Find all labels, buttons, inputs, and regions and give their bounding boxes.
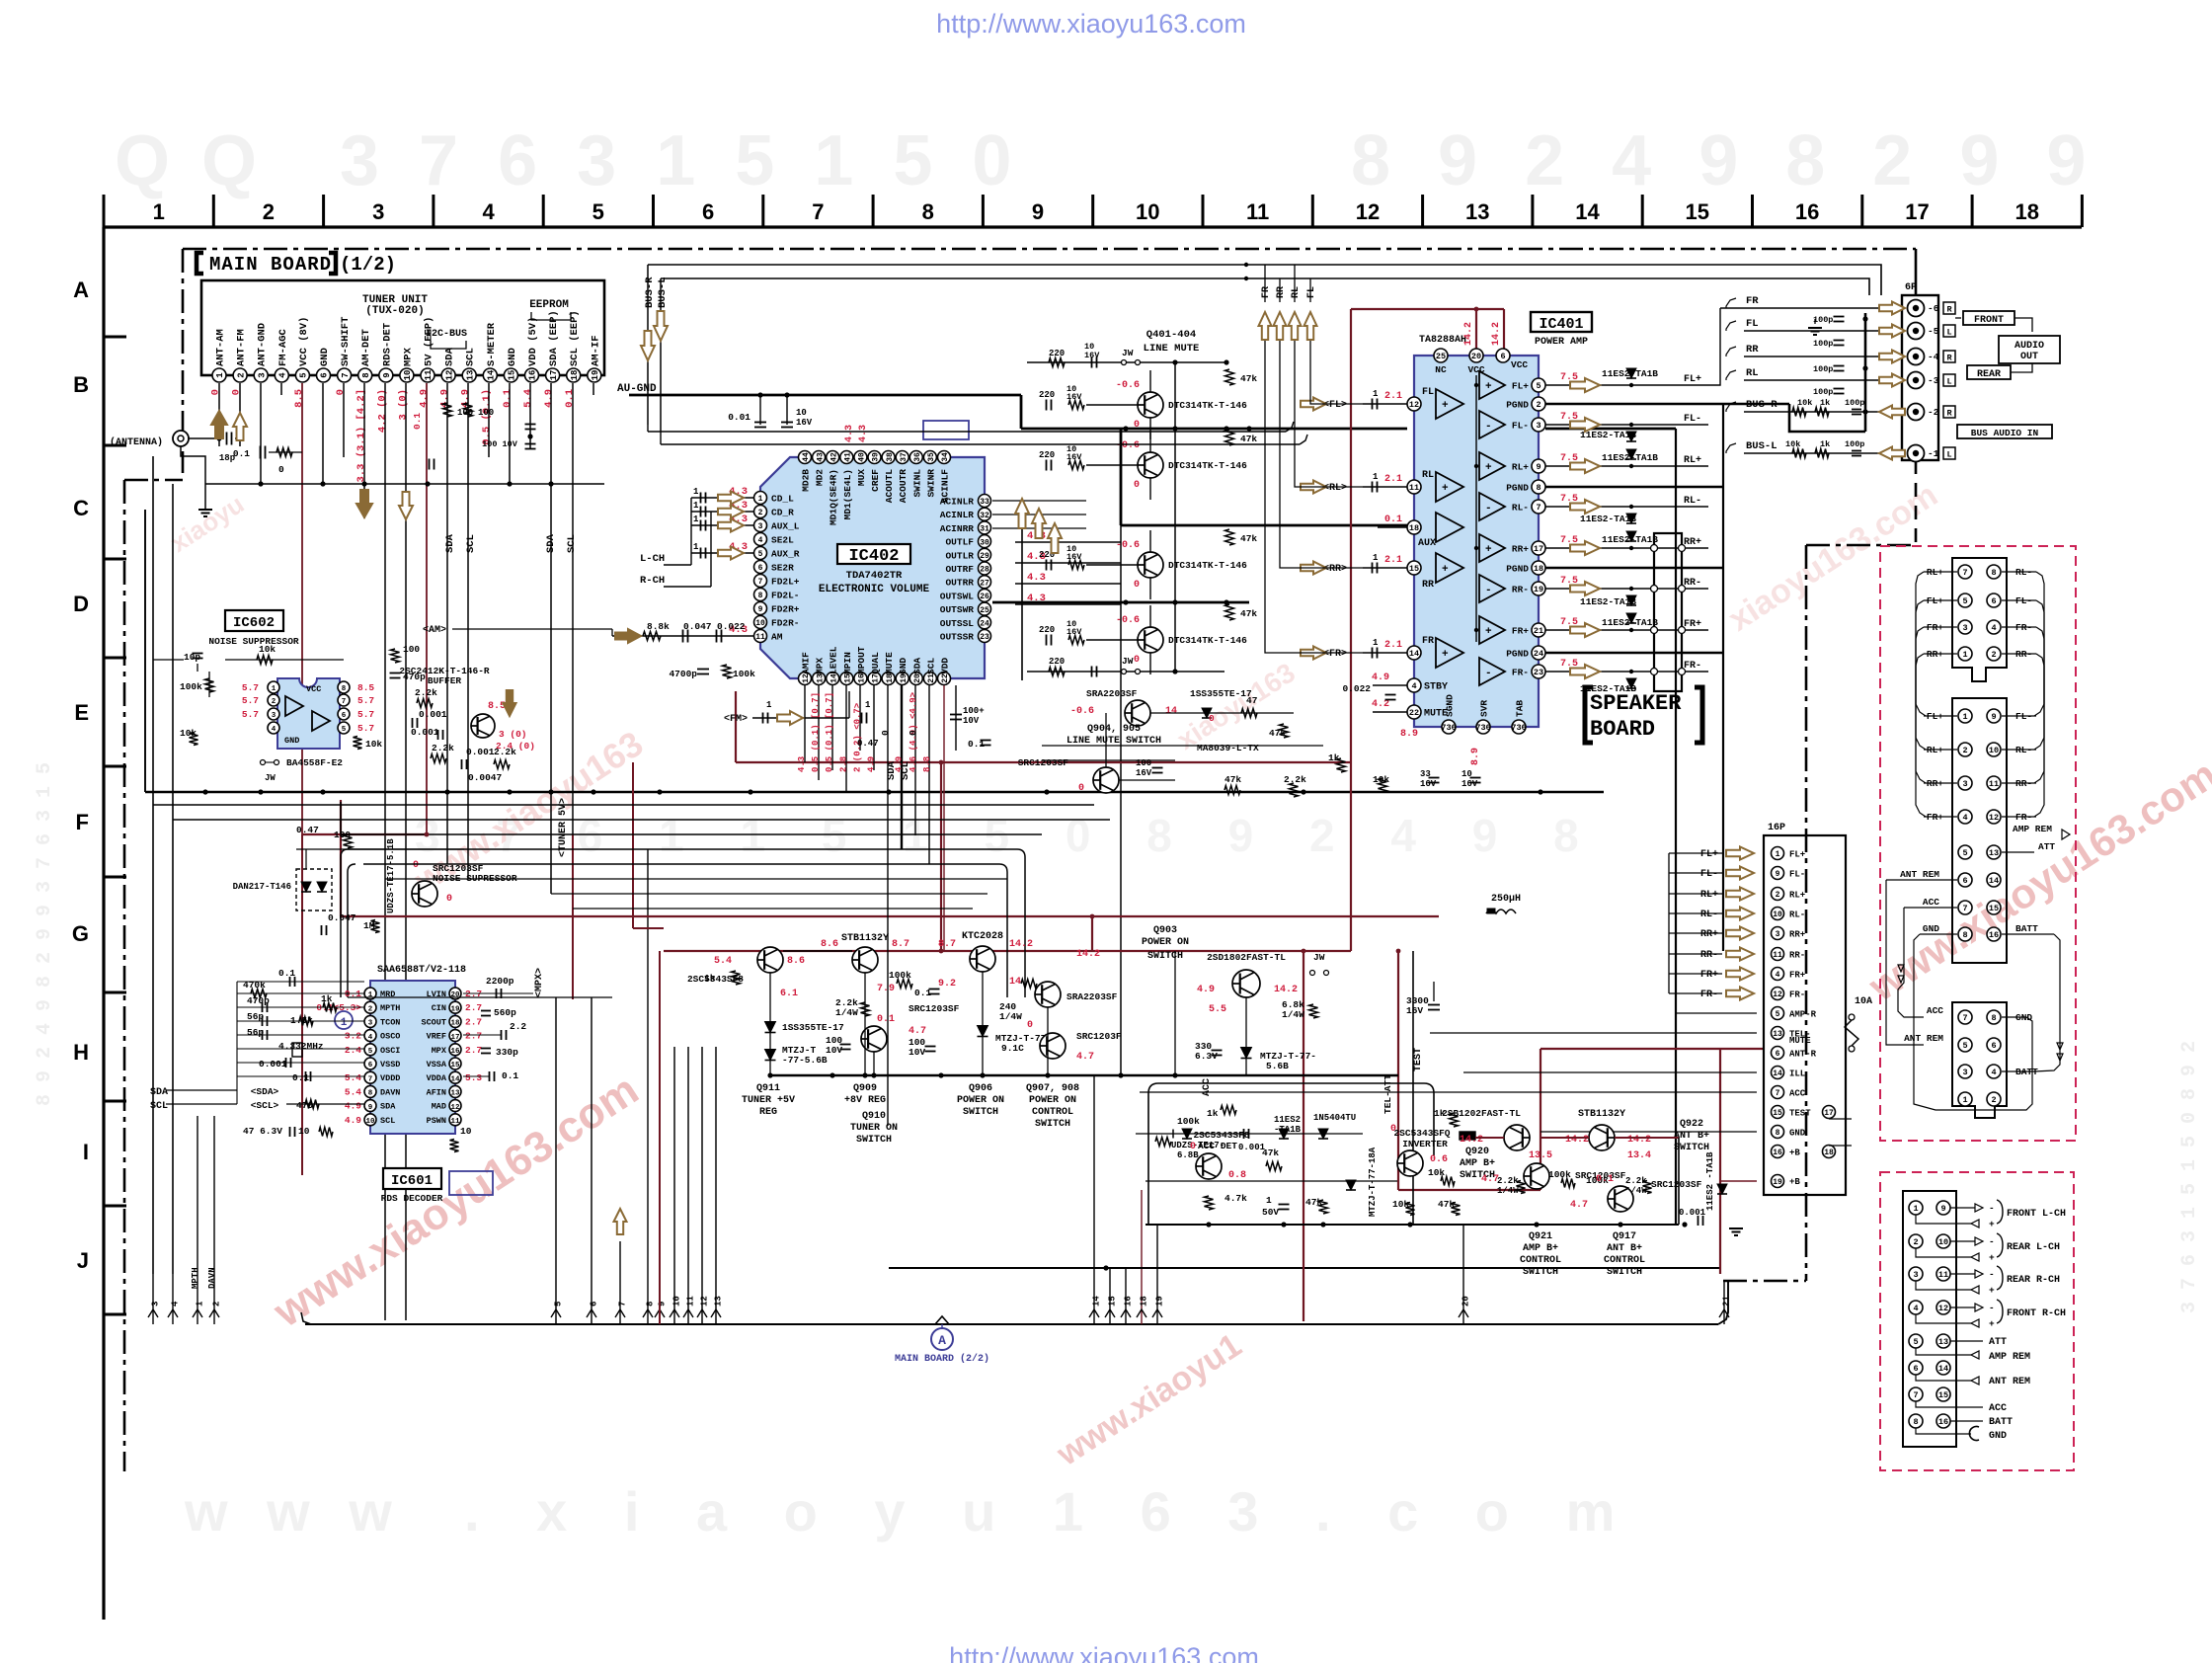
svg-text:SDA: SDA xyxy=(380,1102,396,1112)
svg-text:2: 2 xyxy=(368,1005,373,1013)
svg-text:RL: RL xyxy=(1746,367,1759,379)
svg-text:1/4W: 1/4W xyxy=(999,1011,1022,1022)
svg-text:17: 17 xyxy=(1824,1109,1834,1118)
svg-text:14.2: 14.2 xyxy=(1274,985,1298,995)
svg-text:w w w: w w w xyxy=(184,1480,404,1543)
svg-text:POWER ON: POWER ON xyxy=(957,1095,1004,1106)
svg-text:+8V REG: +8V REG xyxy=(844,1095,886,1106)
svg-text:0: 0 xyxy=(1209,713,1215,724)
svg-text:RR+: RR+ xyxy=(1789,930,1805,940)
svg-text:1: 1 xyxy=(1962,650,1967,660)
svg-text:CONTROL: CONTROL xyxy=(1604,1255,1645,1266)
svg-text:12: 12 xyxy=(700,1296,710,1307)
svg-text:11ES2-TA1B: 11ES2-TA1B xyxy=(1580,430,1636,440)
svg-text:4: 4 xyxy=(368,1034,373,1042)
svg-text:VCC: VCC xyxy=(306,684,321,694)
svg-text:MUTE: MUTE xyxy=(1789,1036,1811,1046)
svg-text:E: E xyxy=(74,700,89,725)
svg-text:-0.6: -0.6 xyxy=(1070,706,1094,717)
svg-text:11: 11 xyxy=(424,369,434,380)
svg-text:DTC314TK-T-146: DTC314TK-T-146 xyxy=(1168,635,1247,646)
svg-text:SE2L: SE2L xyxy=(771,535,794,546)
svg-text:5: 5 xyxy=(554,1302,564,1307)
svg-text:12: 12 xyxy=(1356,199,1380,224)
svg-text:7: 7 xyxy=(1913,1390,1918,1400)
svg-text:8: 8 xyxy=(1962,930,1967,940)
svg-text:0: 0 xyxy=(880,730,891,736)
svg-text:BUS-L: BUS-L xyxy=(1746,440,1777,452)
svg-text:FR+: FR+ xyxy=(1684,619,1701,630)
svg-text:AM-DET: AM-DET xyxy=(360,329,372,366)
svg-text:100: 100 xyxy=(478,408,494,418)
svg-text:2.2k: 2.2k xyxy=(432,743,454,753)
svg-text:3: 3 xyxy=(151,1302,161,1307)
svg-text:FR+: FR+ xyxy=(1789,971,1805,981)
svg-text:RR-: RR- xyxy=(1700,950,1718,961)
svg-text:3 (0): 3 (0) xyxy=(397,389,409,421)
svg-text:<AM>: <AM> xyxy=(423,625,446,636)
svg-text:2: 2 xyxy=(1776,891,1780,900)
svg-text:ELECTRONIC VOLUME: ELECTRONIC VOLUME xyxy=(819,584,930,595)
svg-text:12: 12 xyxy=(1409,400,1419,410)
svg-text:14: 14 xyxy=(1009,977,1021,988)
svg-text:736: 736 xyxy=(1511,723,1526,733)
svg-text:15: 15 xyxy=(450,1062,460,1069)
svg-text:-0.6: -0.6 xyxy=(1116,615,1140,626)
svg-text:8.9: 8.9 xyxy=(1470,748,1481,765)
svg-text:Q911: Q911 xyxy=(756,1083,780,1094)
svg-text:0.47: 0.47 xyxy=(296,825,319,835)
svg-text:5.7: 5.7 xyxy=(242,695,259,706)
svg-text:3: 3 xyxy=(257,372,267,377)
svg-text:4.2: 4.2 xyxy=(1372,699,1389,710)
svg-text:21: 21 xyxy=(1534,626,1543,636)
svg-text:29: 29 xyxy=(980,552,989,561)
svg-text:2: 2 xyxy=(1991,650,1996,660)
svg-text:0: 0 xyxy=(413,860,419,871)
svg-text:BATT: BATT xyxy=(2015,923,2038,934)
svg-text:4.7k: 4.7k xyxy=(1224,1193,1247,1204)
svg-text:20: 20 xyxy=(450,991,460,999)
svg-text:TA8288AH: TA8288AH xyxy=(1419,335,1466,346)
svg-text:10: 10 xyxy=(1773,911,1782,919)
svg-text:0.1: 0.1 xyxy=(877,1014,895,1025)
svg-text:FL: FL xyxy=(1306,286,1317,298)
svg-text:SCL: SCL xyxy=(465,534,477,553)
svg-text:BUFFER: BUFFER xyxy=(428,675,462,686)
svg-text:8.9: 8.9 xyxy=(1400,729,1418,740)
svg-text:30: 30 xyxy=(980,538,989,547)
svg-text:MPTH: MPTH xyxy=(380,1003,400,1013)
svg-text:8: 8 xyxy=(1991,568,1996,578)
svg-text:16: 16 xyxy=(1938,1417,1948,1427)
svg-text:0.6: 0.6 xyxy=(1430,1154,1448,1165)
svg-text:16: 16 xyxy=(1989,930,1999,940)
svg-text:14: 14 xyxy=(1165,706,1177,717)
svg-text:2200p: 2200p xyxy=(486,976,514,987)
svg-text:ACINRR: ACINRR xyxy=(940,523,975,534)
svg-text:15: 15 xyxy=(1409,564,1419,574)
svg-text:VREF: VREF xyxy=(427,1032,446,1042)
svg-text:BOARD: BOARD xyxy=(1590,717,1655,742)
svg-text:TCON: TCON xyxy=(380,1017,400,1027)
svg-text:8.5: 8.5 xyxy=(293,389,305,408)
svg-text:RR+: RR+ xyxy=(1512,544,1529,555)
svg-text:IC402: IC402 xyxy=(848,547,899,566)
svg-text:47 6.3V: 47 6.3V xyxy=(243,1126,282,1137)
svg-text:15: 15 xyxy=(1686,199,1709,224)
svg-text:1k: 1k xyxy=(321,993,333,1004)
svg-text:18: 18 xyxy=(1409,523,1419,533)
svg-text:FD2R+: FD2R+ xyxy=(771,604,800,615)
svg-text:11: 11 xyxy=(755,633,765,642)
svg-text:SW-SHIFT: SW-SHIFT xyxy=(340,317,352,366)
svg-text:8: 8 xyxy=(922,199,934,224)
svg-text:10V: 10V xyxy=(908,1047,925,1058)
svg-text:11ES2-TA1B: 11ES2-TA1B xyxy=(1580,514,1636,524)
svg-text:ATT: ATT xyxy=(1989,1337,2007,1348)
svg-text:JW: JW xyxy=(265,773,276,783)
svg-text:0.001: 0.001 xyxy=(466,747,495,757)
svg-text:AM: AM xyxy=(771,632,783,643)
svg-text:9: 9 xyxy=(382,372,392,377)
svg-text:24: 24 xyxy=(980,620,989,629)
svg-text:OUTSWR: OUTSWR xyxy=(940,604,975,615)
svg-text:FL+: FL+ xyxy=(1700,849,1718,860)
svg-text:RR-: RR- xyxy=(1512,585,1529,595)
svg-text:MAIN BOARD (2/2): MAIN BOARD (2/2) xyxy=(895,1353,989,1365)
svg-text:50V: 50V xyxy=(1262,1207,1279,1218)
svg-text:20: 20 xyxy=(1471,352,1481,361)
svg-text:0.1: 0.1 xyxy=(1596,1174,1614,1185)
svg-text:+: + xyxy=(1442,564,1449,576)
svg-text:L: L xyxy=(1946,450,1951,460)
svg-text:4: 4 xyxy=(758,536,763,545)
svg-text:1k: 1k xyxy=(1328,752,1340,763)
svg-text:RL: RL xyxy=(1291,286,1302,298)
svg-text:17: 17 xyxy=(1534,544,1543,554)
svg-text:6: 6 xyxy=(1962,876,1967,886)
svg-text:16V: 16V xyxy=(1066,627,1082,637)
svg-text:8 9 2 4 9 8 2 9 9 3 7 6 3 1: 8 9 2 4 9 8 2 9 9 3 7 6 3 1 5 xyxy=(34,762,56,1106)
svg-text:FL-: FL- xyxy=(1789,870,1805,880)
svg-text:14.2: 14.2 xyxy=(1076,949,1100,960)
svg-text:0.001: 0.001 xyxy=(411,727,439,738)
svg-text:BUS AUDIO IN: BUS AUDIO IN xyxy=(1971,428,2039,438)
svg-text:11: 11 xyxy=(450,1118,460,1126)
svg-text:AMP REM: AMP REM xyxy=(2013,824,2052,834)
svg-text:<FL>: <FL> xyxy=(1323,400,1347,411)
svg-text:7: 7 xyxy=(1536,503,1540,513)
svg-text:GND: GND xyxy=(898,658,908,674)
svg-text:FM-AGC: FM-AGC xyxy=(277,328,289,366)
svg-text:ANT REM: ANT REM xyxy=(1989,1377,2030,1387)
svg-text:RL+: RL+ xyxy=(1512,462,1529,473)
svg-text:MA8039-L-TX: MA8039-L-TX xyxy=(1197,743,1259,753)
svg-text:14: 14 xyxy=(487,369,497,380)
svg-text:OUTRR: OUTRR xyxy=(945,578,974,589)
svg-text:5: 5 xyxy=(1962,1041,1967,1051)
svg-text:ANT REM: ANT REM xyxy=(1900,869,1939,880)
svg-text:100p: 100p xyxy=(1813,315,1833,325)
svg-text:12: 12 xyxy=(1938,1304,1948,1313)
svg-text:Q920: Q920 xyxy=(1465,1147,1489,1157)
svg-text:5.7: 5.7 xyxy=(357,723,374,734)
svg-text:16: 16 xyxy=(450,1048,460,1056)
svg-text:4.7: 4.7 xyxy=(1076,1052,1094,1063)
svg-text:5: 5 xyxy=(368,1048,373,1056)
svg-text:10: 10 xyxy=(298,1126,310,1137)
svg-text:1: 1 xyxy=(1913,1204,1918,1214)
svg-text:15: 15 xyxy=(1773,1109,1782,1118)
svg-text:MPOUT: MPOUT xyxy=(856,646,867,674)
svg-text:9: 9 xyxy=(1991,712,1996,722)
svg-text:SVR: SVR xyxy=(1479,700,1490,717)
svg-text:220: 220 xyxy=(1039,390,1055,400)
svg-text:MPX: MPX xyxy=(815,658,826,674)
svg-text:SRA2203SF: SRA2203SF xyxy=(1066,991,1118,1002)
svg-text:11: 11 xyxy=(1409,483,1419,493)
svg-text:2: 2 xyxy=(1536,400,1540,410)
svg-text:40: 40 xyxy=(858,452,867,462)
svg-text:MPIN: MPIN xyxy=(842,652,853,674)
svg-text:SCOUT: SCOUT xyxy=(421,1017,446,1027)
svg-text:3: 3 xyxy=(372,199,384,224)
svg-text:-: - xyxy=(1989,1203,1995,1214)
svg-text:ATT: ATT xyxy=(2038,841,2055,852)
svg-text:19: 19 xyxy=(591,370,600,381)
svg-text:10k: 10k xyxy=(259,644,276,655)
svg-text:+: + xyxy=(1442,483,1449,495)
svg-text:SWITCH: SWITCH xyxy=(1523,1267,1558,1278)
svg-text:SWITCH: SWITCH xyxy=(856,1135,892,1146)
svg-text:3 (0): 3 (0) xyxy=(499,729,527,740)
svg-text:36: 36 xyxy=(913,452,922,462)
svg-text:2.1: 2.1 xyxy=(1384,640,1402,651)
svg-text:220: 220 xyxy=(1049,657,1065,667)
svg-text:VSSA: VSSA xyxy=(427,1060,447,1069)
svg-text:KTC2028: KTC2028 xyxy=(962,931,1003,942)
svg-text:4.3: 4.3 xyxy=(844,425,855,442)
svg-text:AUDIO: AUDIO xyxy=(2014,341,2044,352)
svg-text:16V: 16V xyxy=(1420,779,1437,789)
svg-text:28: 28 xyxy=(980,566,989,575)
svg-text:FR: FR xyxy=(1746,295,1759,307)
svg-text:RR+: RR+ xyxy=(1684,537,1701,548)
svg-text:TUNER ON: TUNER ON xyxy=(850,1123,898,1134)
svg-text:2: 2 xyxy=(212,1302,222,1307)
svg-text:(ANTENNA): (ANTENNA) xyxy=(110,436,163,448)
svg-text:2: 2 xyxy=(758,509,763,517)
svg-text:6: 6 xyxy=(1991,1041,1996,1051)
svg-text:ANT-R: ANT-R xyxy=(1789,1050,1817,1060)
svg-text:2.7: 2.7 xyxy=(465,1002,482,1013)
svg-text:1: 1 xyxy=(1373,553,1379,563)
svg-text:RR: RR xyxy=(1422,580,1434,591)
svg-text:<RR>: <RR> xyxy=(1323,564,1347,575)
svg-text:4: 4 xyxy=(171,1301,181,1307)
svg-text:0.5 (0.1) [0.7]: 0.5 (0.1) [0.7] xyxy=(825,692,834,772)
svg-text:100k: 100k xyxy=(733,669,755,679)
svg-text:ANT-AM: ANT-AM xyxy=(215,329,227,366)
svg-text:RL: RL xyxy=(1422,470,1434,481)
svg-text:3: 3 xyxy=(1962,779,1967,789)
svg-text:100k: 100k xyxy=(1548,1169,1571,1180)
svg-text:11ES2 -TA1B: 11ES2 -TA1B xyxy=(1705,1151,1715,1211)
svg-text:10: 10 xyxy=(1136,199,1159,224)
svg-text:NC: NC xyxy=(1435,364,1447,375)
svg-text:SWITCH: SWITCH xyxy=(963,1107,998,1118)
svg-text:SWITCH: SWITCH xyxy=(1147,951,1183,962)
svg-text:6: 6 xyxy=(1991,596,1996,606)
svg-text:SCL: SCL xyxy=(380,1116,395,1126)
svg-text:RL-: RL- xyxy=(1684,496,1701,507)
svg-text:OUTRF: OUTRF xyxy=(945,564,974,575)
svg-text:OUTLF: OUTLF xyxy=(945,537,974,548)
svg-text:+: + xyxy=(1989,1285,1995,1296)
svg-text:DAN217-T146: DAN217-T146 xyxy=(233,882,291,892)
svg-text:FR: FR xyxy=(1422,636,1434,647)
svg-text:0: 0 xyxy=(335,389,347,395)
svg-text:47k: 47k xyxy=(1240,434,1257,444)
svg-text:4.9: 4.9 xyxy=(1372,673,1389,683)
svg-text:PSWN: PSWN xyxy=(427,1116,446,1126)
svg-text:11ES2: 11ES2 xyxy=(1274,1115,1301,1125)
svg-text:BA4558F-E2: BA4558F-E2 xyxy=(286,757,343,768)
svg-text:26: 26 xyxy=(980,593,989,601)
svg-text:-: - xyxy=(1989,1269,1995,1280)
svg-text:Q907, 908: Q907, 908 xyxy=(1026,1083,1079,1094)
svg-text:AU-GND: AU-GND xyxy=(617,383,657,395)
svg-text:S-METER: S-METER xyxy=(486,322,498,366)
svg-text:12: 12 xyxy=(450,1104,460,1112)
svg-text:42: 42 xyxy=(829,452,838,462)
svg-text:SCL: SCL xyxy=(900,761,911,780)
svg-text:FR+: FR+ xyxy=(1512,626,1529,637)
svg-text:25: 25 xyxy=(980,606,989,615)
svg-text:4.9: 4.9 xyxy=(419,389,431,408)
svg-text:ACC: ACC xyxy=(1927,1005,1943,1016)
svg-text:12: 12 xyxy=(1989,813,1999,823)
svg-text:100+: 100+ xyxy=(963,706,985,716)
svg-text:3: 3 xyxy=(1536,421,1540,431)
svg-text:16: 16 xyxy=(528,370,538,381)
svg-text:DAVN: DAVN xyxy=(380,1087,400,1097)
svg-text:TEST: TEST xyxy=(1413,1048,1424,1071)
svg-text:15: 15 xyxy=(1989,904,1999,913)
svg-text:1: 1 xyxy=(368,991,373,999)
svg-text:FL-: FL- xyxy=(1700,869,1718,880)
svg-text:+: + xyxy=(1485,544,1492,556)
svg-text:10k: 10k xyxy=(1797,398,1812,408)
svg-text:14.2: 14.2 xyxy=(1565,1135,1589,1146)
svg-text:GND: GND xyxy=(1923,923,1939,934)
svg-text:7: 7 xyxy=(1962,568,1967,578)
svg-text:47k: 47k xyxy=(1240,608,1257,619)
svg-text:8.6: 8.6 xyxy=(787,956,805,967)
svg-text:6: 6 xyxy=(320,372,330,377)
svg-text:18: 18 xyxy=(1534,564,1543,574)
svg-text:ACC: ACC xyxy=(1789,1089,1806,1099)
svg-text:4: 4 xyxy=(278,372,288,378)
svg-text:ILL: ILL xyxy=(1789,1069,1805,1079)
svg-text:13: 13 xyxy=(450,1090,460,1098)
svg-text:1: 1 xyxy=(153,199,165,224)
svg-text:0.1: 0.1 xyxy=(1384,515,1402,525)
svg-text:1SS355TE-17: 1SS355TE-17 xyxy=(782,1022,844,1033)
svg-text:0.1: 0.1 xyxy=(278,968,295,979)
svg-text:RL+: RL+ xyxy=(1789,891,1805,901)
svg-text:+: + xyxy=(1989,1318,1995,1329)
svg-text:Q906: Q906 xyxy=(969,1083,992,1094)
svg-text:SRC1203F: SRC1203F xyxy=(1076,1031,1122,1042)
svg-text:AUX: AUX xyxy=(1418,538,1436,549)
svg-text:DTC314TK-T-146: DTC314TK-T-146 xyxy=(1168,560,1247,571)
svg-text:8: 8 xyxy=(758,592,763,600)
svg-text:14: 14 xyxy=(450,1075,460,1083)
svg-text:0: 0 xyxy=(231,389,243,395)
svg-text:37: 37 xyxy=(900,452,908,462)
svg-text:NOISE SUPPRESSOR: NOISE SUPPRESSOR xyxy=(208,636,299,647)
svg-text:+B: +B xyxy=(1789,1177,1800,1187)
svg-text:SDA (EEP): SDA (EEP) xyxy=(548,310,560,366)
svg-text:0.001: 0.001 xyxy=(419,709,447,720)
svg-text:2: 2 xyxy=(1991,1095,1996,1105)
svg-text:ANT B+: ANT B+ xyxy=(1607,1243,1642,1254)
svg-text:1: 1 xyxy=(865,700,871,710)
svg-text:5.4: 5.4 xyxy=(714,956,732,967)
svg-text:2.8: 2.8 xyxy=(838,756,848,772)
svg-text:(TUX-020): (TUX-020) xyxy=(365,305,424,317)
svg-text:19: 19 xyxy=(1155,1296,1165,1307)
svg-text:23: 23 xyxy=(1534,668,1543,677)
svg-text:-77-5.6B: -77-5.6B xyxy=(782,1055,828,1066)
svg-text:8.6: 8.6 xyxy=(821,939,838,950)
svg-text:8: 8 xyxy=(368,1090,373,1098)
svg-text:SWITCH: SWITCH xyxy=(1035,1119,1070,1130)
svg-text:6: 6 xyxy=(1913,1364,1918,1374)
svg-text:33: 33 xyxy=(980,498,989,507)
svg-text:VDD: VDD xyxy=(940,658,951,674)
svg-text:FR-: FR- xyxy=(1512,668,1529,678)
svg-text:17: 17 xyxy=(1905,199,1929,224)
svg-text:AUX_R: AUX_R xyxy=(771,549,800,560)
svg-text:-: - xyxy=(1485,585,1492,596)
svg-text:0: 0 xyxy=(1134,655,1140,666)
svg-text:STBY: STBY xyxy=(1424,682,1448,693)
svg-text:2.2: 2.2 xyxy=(510,1021,526,1032)
svg-text:1/4W: 1/4W xyxy=(1497,1186,1519,1196)
svg-text:OUTSWL: OUTSWL xyxy=(940,591,975,601)
svg-text:GND: GND xyxy=(507,348,518,366)
svg-text:-4: -4 xyxy=(1928,352,1939,362)
svg-text:1: 1 xyxy=(693,501,699,511)
svg-text:13: 13 xyxy=(714,1296,724,1307)
svg-text:1: 1 xyxy=(215,372,225,378)
svg-text:MD1Q(SE4R): MD1Q(SE4R) xyxy=(829,469,839,525)
svg-text:PGND: PGND xyxy=(1506,483,1529,494)
svg-text:5.7: 5.7 xyxy=(242,709,259,720)
svg-text:SWINR: SWINR xyxy=(925,469,936,498)
svg-text:7: 7 xyxy=(341,372,351,377)
svg-text:L: L xyxy=(1946,328,1951,338)
svg-text:100p: 100p xyxy=(1845,398,1864,408)
svg-text:16V: 16V xyxy=(1136,768,1152,778)
svg-text:ACC DET: ACC DET xyxy=(1198,1141,1237,1151)
svg-text:4.9: 4.9 xyxy=(1197,985,1215,995)
svg-text:RR: RR xyxy=(1746,344,1759,356)
svg-text:FR+: FR+ xyxy=(1700,970,1718,981)
